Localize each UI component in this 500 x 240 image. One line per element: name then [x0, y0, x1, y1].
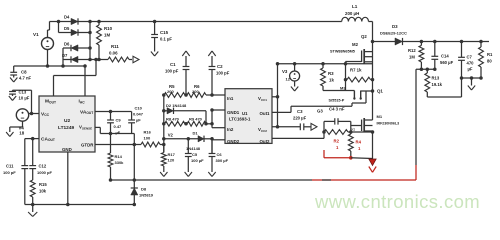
- svg-text:120: 120: [168, 158, 175, 163]
- svg-text:L1: L1: [352, 4, 358, 9]
- svg-text:LT1249: LT1249: [58, 125, 75, 131]
- svg-text:µF: µF: [468, 67, 473, 72]
- svg-text:In2: In2: [227, 127, 234, 132]
- svg-text:10k: 10k: [39, 189, 47, 194]
- svg-text:0.06: 0.06: [109, 51, 118, 56]
- svg-text:In1: In1: [227, 96, 234, 101]
- svg-text:VCC: VCC: [41, 111, 50, 117]
- svg-text:D5: D5: [64, 26, 70, 31]
- svg-text:D7: D7: [62, 53, 68, 58]
- svg-text:G1: G1: [350, 128, 355, 132]
- svg-text:C9: C9: [116, 118, 122, 123]
- svg-text:R15: R15: [39, 182, 47, 187]
- svg-text:R3: R3: [328, 71, 334, 76]
- svg-text:C12: C12: [39, 164, 47, 169]
- svg-text:C15: C15: [160, 30, 169, 35]
- svg-text:0.47: 0.47: [114, 124, 123, 129]
- svg-text:U2: U2: [64, 118, 70, 124]
- svg-text:R2: R2: [334, 139, 340, 144]
- svg-text:IRF230N06L3: IRF230N06L3: [377, 122, 400, 126]
- svg-text:R8 470: R8 470: [166, 117, 180, 122]
- svg-text:M3: M3: [340, 86, 346, 91]
- svg-text:GND1: GND1: [227, 110, 240, 115]
- svg-text:Out2: Out2: [260, 139, 271, 144]
- svg-text:R17: R17: [168, 152, 176, 157]
- svg-text:D8: D8: [141, 187, 147, 192]
- svg-text:R14: R14: [115, 154, 123, 159]
- svg-text:100 pF: 100 pF: [216, 71, 230, 76]
- svg-text:µF: µF: [136, 118, 141, 123]
- svg-text:M2: M2: [352, 42, 359, 47]
- svg-text:200: 200: [192, 89, 199, 94]
- svg-text:GND: GND: [62, 147, 72, 152]
- svg-text:U1: U1: [242, 111, 248, 116]
- svg-text:C10: C10: [135, 106, 143, 111]
- svg-text:R10: R10: [104, 26, 113, 31]
- svg-text:Q2: Q2: [361, 34, 367, 39]
- svg-text:0.047: 0.047: [133, 112, 144, 117]
- svg-text:V3: V3: [282, 69, 288, 74]
- svg-text:Q1: Q1: [377, 89, 383, 94]
- svg-text:470: 470: [467, 61, 475, 66]
- svg-text:D2 1N4148: D2 1N4148: [166, 103, 187, 108]
- svg-text:IAC: IAC: [79, 99, 86, 105]
- svg-text:µF: µF: [116, 130, 121, 135]
- svg-text:200: 200: [167, 89, 174, 94]
- svg-text:1M: 1M: [409, 55, 415, 60]
- svg-text:18: 18: [19, 131, 24, 136]
- svg-text:G3: G3: [317, 109, 323, 114]
- svg-text:V2: V2: [168, 133, 174, 138]
- svg-text:C5: C5: [192, 152, 198, 157]
- svg-text:100 µF: 100 µF: [191, 158, 204, 163]
- svg-text:Si5515-P: Si5515-P: [329, 99, 345, 103]
- svg-text:STW88N65M5: STW88N65M5: [330, 50, 355, 54]
- svg-text:www.cntronics.com: www.cntronics.com: [314, 191, 480, 212]
- svg-text:100: 100: [144, 136, 151, 141]
- svg-text:100 pF: 100 pF: [3, 170, 16, 175]
- svg-text:560 µF: 560 µF: [440, 60, 454, 65]
- svg-text:GTDR: GTDR: [81, 143, 94, 148]
- svg-text:1N5819: 1N5819: [139, 193, 154, 198]
- svg-text:R13: R13: [432, 76, 440, 81]
- svg-text:R9 470: R9 470: [189, 117, 203, 122]
- svg-text:D4: D4: [64, 15, 70, 20]
- svg-text:Out1: Out1: [260, 111, 271, 116]
- svg-text:220 µF: 220 µF: [293, 116, 307, 121]
- svg-text:C4 3 nF: C4 3 nF: [329, 107, 345, 112]
- svg-text:80: 80: [487, 59, 492, 64]
- svg-text:R12: R12: [408, 48, 416, 53]
- svg-text:12: 12: [286, 77, 291, 82]
- svg-text:VAOUT: VAOUT: [80, 109, 93, 115]
- svg-text:R16: R16: [144, 130, 152, 135]
- svg-text:D6: D6: [64, 42, 70, 47]
- svg-text:D1: D1: [193, 131, 199, 136]
- svg-text:200 µH: 200 µH: [345, 11, 359, 16]
- svg-text:MOUT: MOUT: [45, 99, 56, 105]
- svg-text:C2: C2: [217, 64, 223, 69]
- svg-text:LTC1693-1: LTC1693-1: [229, 117, 251, 122]
- svg-text:VCC1: VCC1: [258, 96, 267, 102]
- svg-text:C13: C13: [19, 90, 27, 95]
- svg-text:1000 pF: 1000 pF: [37, 170, 52, 175]
- svg-text:C8: C8: [21, 70, 27, 75]
- svg-text:R7 1k: R7 1k: [350, 68, 362, 73]
- svg-text:R4: R4: [356, 140, 362, 145]
- svg-text:M1: M1: [377, 114, 383, 119]
- svg-text:330k: 330k: [115, 160, 125, 165]
- svg-text:C1: C1: [170, 62, 176, 67]
- svg-text:C11: C11: [6, 164, 14, 169]
- svg-text:1M: 1M: [104, 33, 110, 38]
- svg-text:300 µF: 300 µF: [216, 158, 229, 163]
- svg-text:R11: R11: [111, 44, 119, 49]
- svg-text:CAOUT: CAOUT: [41, 136, 55, 142]
- svg-text:C3: C3: [297, 109, 303, 114]
- svg-text:VCC2: VCC2: [258, 127, 267, 133]
- svg-text:4.7 nF: 4.7 nF: [19, 76, 32, 81]
- svg-text:GND2: GND2: [227, 139, 240, 144]
- svg-text:C6: C6: [217, 152, 223, 157]
- svg-text:D3: D3: [392, 24, 398, 29]
- svg-text:C7: C7: [467, 55, 473, 60]
- svg-text:DSEE29-12CC: DSEE29-12CC: [380, 31, 407, 36]
- svg-text:1k: 1k: [329, 78, 334, 83]
- svg-text:19.1k: 19.1k: [432, 82, 443, 87]
- svg-text:VSENSE: VSENSE: [79, 125, 92, 131]
- svg-text:100 pF: 100 pF: [165, 69, 179, 74]
- svg-text:10 µF: 10 µF: [19, 95, 30, 100]
- svg-text:R1: R1: [487, 52, 493, 57]
- svg-text:V1: V1: [33, 32, 39, 37]
- svg-text:0.1 µF: 0.1 µF: [160, 37, 172, 42]
- svg-text:C14: C14: [441, 54, 449, 59]
